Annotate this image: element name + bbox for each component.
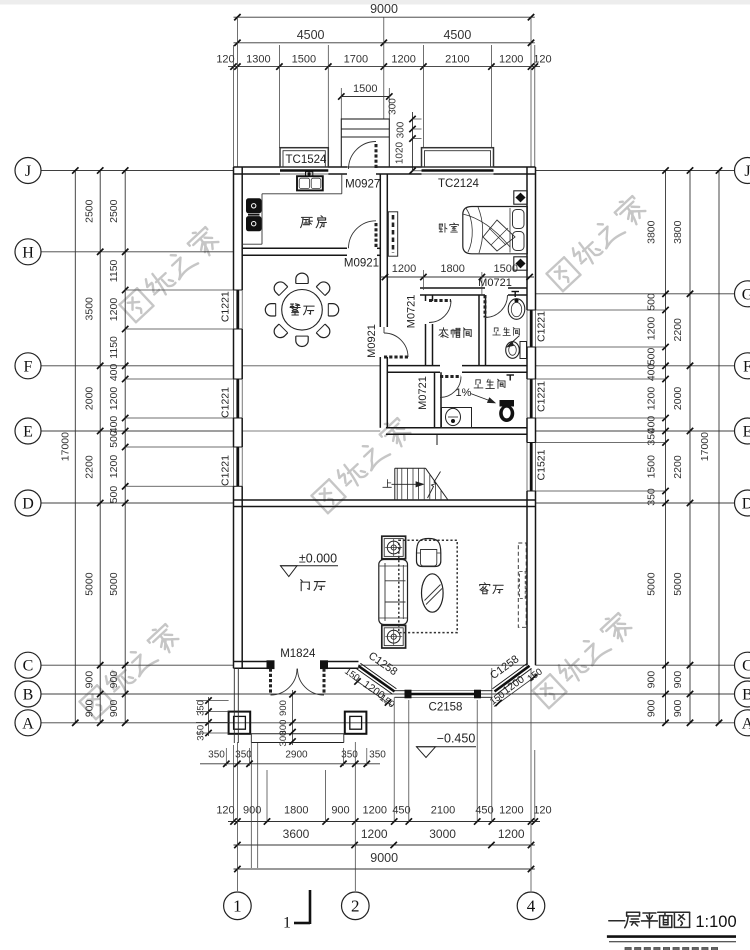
svg-text:120: 120 [533,53,551,65]
svg-text:500: 500 [646,293,658,311]
svg-text:900: 900 [278,700,289,716]
svg-text:F: F [743,358,750,375]
svg-text:TC1524: TC1524 [286,154,328,166]
svg-text:1: 1 [283,915,291,932]
svg-text:1200: 1200 [499,53,523,65]
svg-text:2200: 2200 [672,455,684,479]
svg-text:3500: 3500 [84,297,96,321]
svg-text:900: 900 [646,699,658,717]
svg-text:3000: 3000 [429,827,456,841]
svg-text:900: 900 [84,699,96,717]
svg-text:M0921: M0921 [344,258,379,270]
svg-text:2000: 2000 [672,387,684,411]
svg-text:E: E [743,424,750,441]
svg-text:C: C [742,658,750,675]
svg-text:A: A [742,715,750,732]
svg-text:900: 900 [646,671,658,689]
svg-text:5000: 5000 [646,572,658,596]
svg-text:1020: 1020 [395,141,406,164]
svg-text:1500: 1500 [646,455,658,479]
svg-text:1200: 1200 [108,387,120,411]
svg-text:C1221: C1221 [536,311,548,342]
svg-text:300: 300 [278,731,289,747]
svg-text:M0927: M0927 [345,178,380,190]
svg-text:450: 450 [475,805,493,817]
svg-text:300: 300 [396,121,407,138]
svg-text:C1221: C1221 [220,291,232,322]
svg-text:C1221: C1221 [220,387,232,418]
svg-text:450: 450 [392,805,410,817]
svg-text:A: A [22,715,34,732]
svg-text:F: F [24,358,33,375]
svg-text:C: C [23,658,34,675]
svg-text:350: 350 [369,750,386,761]
svg-text:B: B [742,687,750,704]
svg-text:400: 400 [108,363,120,381]
svg-text:1200: 1200 [646,317,658,341]
svg-text:17000: 17000 [60,432,72,461]
svg-text:350: 350 [646,488,658,506]
svg-text:−0.450: −0.450 [437,732,476,746]
svg-text:C1221: C1221 [536,381,548,412]
svg-text:1150: 1150 [108,336,120,359]
svg-text:350: 350 [208,750,225,761]
svg-text:M0721: M0721 [417,376,429,410]
svg-text:M1824: M1824 [280,648,316,660]
svg-text:H: H [22,244,34,261]
svg-text:120: 120 [533,805,551,817]
svg-text:900: 900 [672,699,684,717]
svg-text:1: 1 [233,897,242,916]
svg-text:M0721: M0721 [478,277,512,289]
svg-text:900: 900 [672,671,684,689]
svg-text:500: 500 [108,430,120,448]
svg-text:1200: 1200 [363,805,387,817]
svg-text:1800: 1800 [440,263,464,275]
svg-text:120: 120 [216,805,234,817]
svg-text:M0721: M0721 [405,295,417,329]
svg-text:1200: 1200 [361,827,388,841]
svg-text:400: 400 [646,363,658,381]
svg-text:17000: 17000 [699,432,711,461]
svg-text:E: E [23,424,33,441]
svg-text:9000: 9000 [370,2,398,16]
svg-text:1200: 1200 [108,455,120,479]
svg-text:1200: 1200 [646,387,658,411]
svg-text:900: 900 [108,671,120,689]
svg-text:2100: 2100 [445,53,469,65]
svg-text:3600: 3600 [283,827,310,841]
svg-text:±0.000: ±0.000 [299,552,337,566]
svg-text:900: 900 [331,805,349,817]
svg-text:500: 500 [646,347,658,365]
svg-text:G: G [742,286,750,303]
svg-text:1200: 1200 [499,805,523,817]
svg-text:900: 900 [108,699,120,717]
svg-text:D: D [742,496,750,513]
svg-text:5000: 5000 [108,572,120,596]
svg-text:350: 350 [195,725,206,741]
svg-text:2000: 2000 [84,387,96,411]
svg-text:2500: 2500 [108,199,120,223]
svg-text:1800: 1800 [284,805,308,817]
svg-text:1200: 1200 [391,53,415,65]
svg-text:1700: 1700 [344,53,368,65]
svg-text:3800: 3800 [672,220,684,244]
svg-text:D: D [22,496,34,513]
svg-text:1200: 1200 [108,298,120,322]
svg-text:2200: 2200 [672,318,684,342]
svg-text:120: 120 [216,53,234,65]
svg-text:1200: 1200 [498,827,525,841]
svg-text:9000: 9000 [370,851,398,865]
svg-text:4500: 4500 [443,28,471,42]
svg-text:350: 350 [195,700,206,716]
svg-text:C1521: C1521 [536,449,548,480]
svg-text:2900: 2900 [285,750,308,761]
svg-text:2100: 2100 [431,805,455,817]
svg-text:2200: 2200 [84,455,96,479]
svg-text:1300: 1300 [246,53,270,65]
svg-text:900: 900 [84,671,96,689]
svg-text:B: B [23,687,34,704]
svg-text:1%: 1% [456,387,472,399]
svg-text:J: J [25,163,31,180]
svg-text:2: 2 [351,897,360,916]
svg-text:J: J [744,163,750,180]
svg-text:2500: 2500 [84,199,96,223]
svg-text:500: 500 [108,486,120,504]
svg-text:5000: 5000 [672,572,684,596]
svg-text:1500: 1500 [353,83,377,95]
svg-text:1:100: 1:100 [695,913,736,931]
svg-text:C1221: C1221 [220,455,232,486]
svg-text:4: 4 [527,897,536,916]
svg-text:1500: 1500 [292,53,316,65]
svg-text:M0921: M0921 [366,324,378,358]
svg-text:1500: 1500 [494,263,518,275]
svg-text:350: 350 [646,428,658,446]
svg-text:3800: 3800 [646,220,658,244]
svg-text:900: 900 [243,805,261,817]
svg-text:1150: 1150 [108,259,120,282]
svg-text:5000: 5000 [84,572,96,596]
svg-text:1200: 1200 [392,263,416,275]
svg-text:C2158: C2158 [429,702,463,714]
svg-text:4500: 4500 [297,28,325,42]
svg-text:TC2124: TC2124 [438,178,480,190]
